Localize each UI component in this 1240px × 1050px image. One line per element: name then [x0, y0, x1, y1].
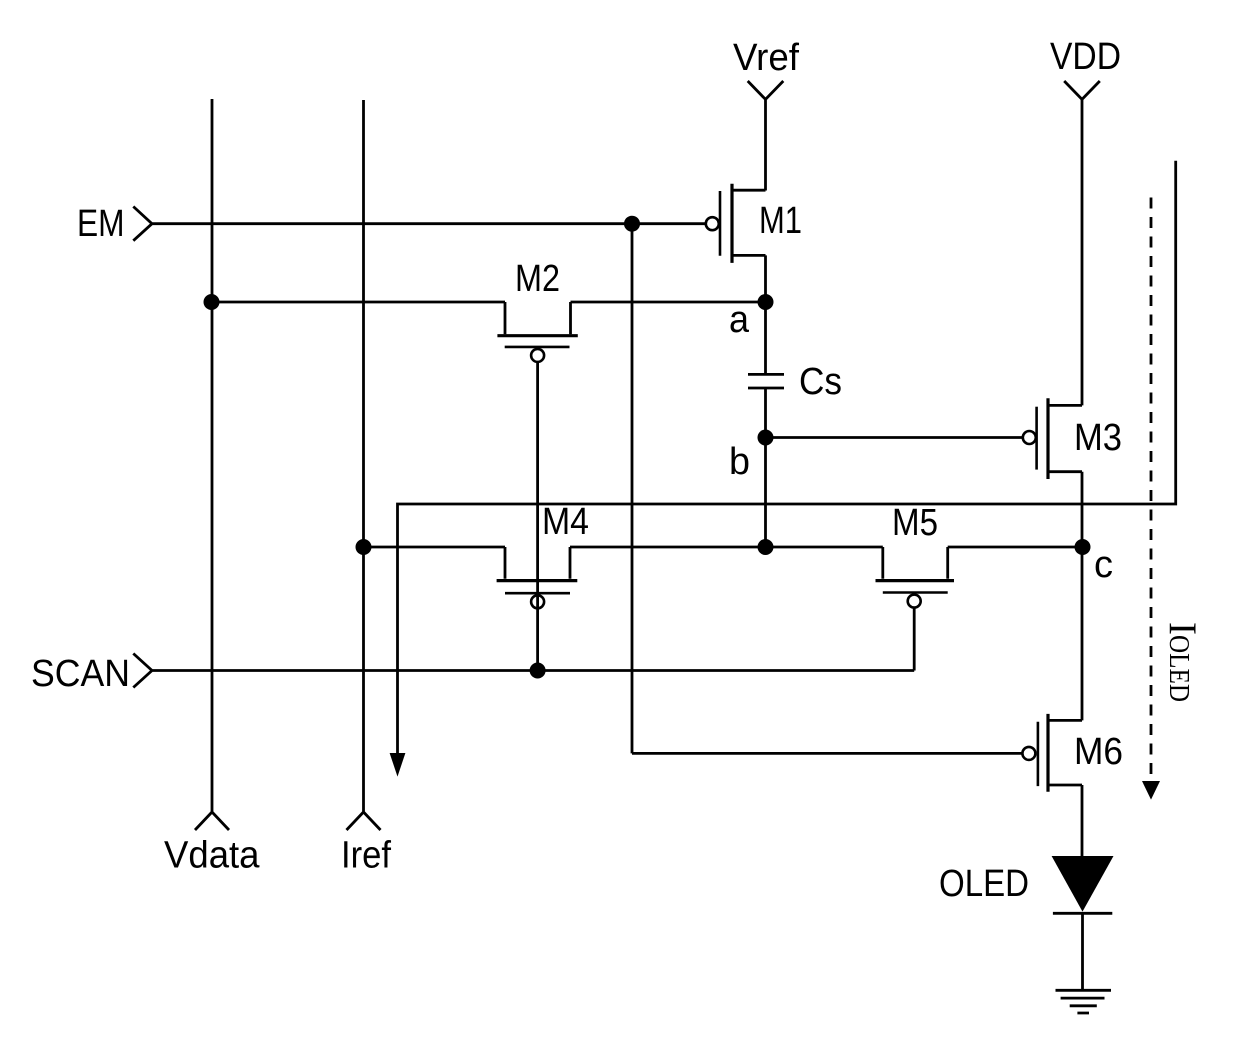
- svg-text:b: b: [729, 441, 750, 483]
- svg-text:M5: M5: [892, 502, 938, 544]
- svg-text:VDD: VDD: [1050, 36, 1121, 78]
- svg-text:Vref: Vref: [733, 37, 799, 79]
- svg-text:c: c: [1094, 544, 1113, 586]
- svg-text:SCAN: SCAN: [31, 653, 130, 695]
- svg-text:EM: EM: [77, 203, 125, 245]
- svg-text:M1: M1: [759, 200, 802, 242]
- svg-text:OLED: OLED: [939, 863, 1029, 905]
- svg-text:Cs: Cs: [799, 361, 842, 403]
- svg-text:Vdata: Vdata: [164, 835, 260, 877]
- svg-text:M3: M3: [1074, 417, 1122, 459]
- svg-text:a: a: [729, 299, 750, 341]
- svg-text:Iref: Iref: [341, 835, 391, 877]
- svg-text:M6: M6: [1074, 731, 1123, 773]
- svg-text:IOLED: IOLED: [1161, 622, 1204, 702]
- svg-text:M4: M4: [542, 501, 589, 543]
- svg-text:M2: M2: [515, 258, 560, 300]
